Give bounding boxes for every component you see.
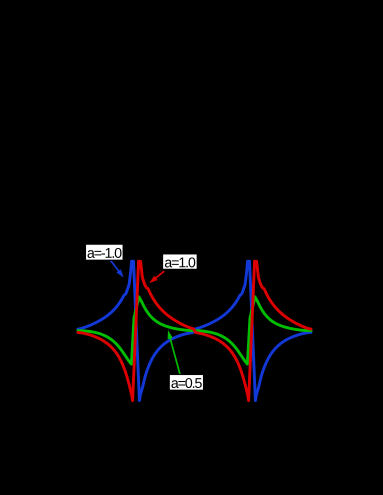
curve a=-1.0 (blue)	[78, 261, 311, 400]
arrow to green curve	[169, 335, 180, 375]
label a=-1.0	[86, 244, 124, 260]
arrow to red curve	[153, 271, 164, 280]
label a=0.5	[169, 375, 203, 391]
curve a=0.5 (green)	[78, 297, 311, 364]
curve a=1.0 (red)	[78, 261, 311, 400]
label a=1.0	[163, 254, 198, 269]
arrow to blue curve	[111, 260, 121, 274]
